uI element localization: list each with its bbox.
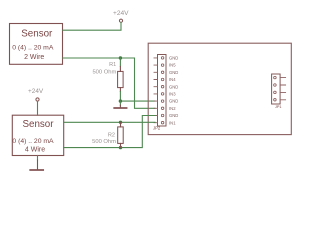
svg-text:0 (4) .. 20 mA: 0 (4) .. 20 mA [12, 45, 54, 52]
sensor U2 (4-wire) box [12, 115, 63, 155]
JP2 pin stubs [154, 58, 158, 123]
module box [148, 43, 291, 134]
junction at R2 bottom node [119, 146, 122, 149]
svg-text:GND: GND [169, 84, 178, 89]
svg-text:GND: GND [169, 70, 178, 75]
JP2 pin name labels [169, 56, 178, 126]
resistor R1 [119, 67, 121, 92]
svg-text:500 Ohm: 500 Ohm [92, 139, 116, 145]
svg-text:+24V: +24V [113, 10, 129, 17]
wire sensor2 output to IN1 [64, 121, 155, 123]
wire to ground 1 [119, 101, 121, 105]
JP2 pin circles [161, 57, 164, 124]
JP1 pin circles [274, 76, 277, 101]
ground symbol 1 [119, 105, 121, 107]
JP1 pin stubs [280, 78, 286, 100]
sensor U1 (2-wire) box [10, 24, 63, 65]
svg-text:500 Ohm: 500 Ohm [92, 70, 116, 76]
svg-text:4 Wire: 4 Wire [25, 146, 45, 153]
svg-text:IN5: IN5 [169, 63, 176, 68]
svg-text:IN4: IN4 [169, 77, 176, 82]
wire R1 top stub [119, 58, 121, 67]
svg-text:Sensor: Sensor [21, 29, 53, 40]
svg-text:JP2: JP2 [153, 125, 161, 130]
pin header JP1 box [272, 74, 281, 104]
wire sensor1 +24V feed [63, 23, 121, 31]
svg-text:GND: GND [169, 56, 178, 61]
svg-text:2 Wire: 2 Wire [24, 54, 44, 61]
svg-text:GND: GND [169, 113, 178, 118]
wire sensor2 +24V feed [37, 101, 39, 115]
supply +24V symbol (sensor 2) [36, 98, 39, 101]
junction at R1 bottom node [119, 99, 122, 102]
supply +24V symbol (top) [119, 19, 122, 22]
svg-text:IN3: IN3 [169, 92, 176, 97]
svg-text:R1: R1 [109, 62, 116, 68]
wire sensor2 return to GND pin [64, 116, 155, 148]
svg-text:+24V: +24V [28, 88, 44, 95]
pin header JP2 box [158, 55, 167, 127]
wire sensor2 to ground [37, 156, 39, 161]
svg-text:R2: R2 [108, 133, 115, 139]
svg-text:IN1: IN1 [169, 120, 176, 125]
svg-text:IN2: IN2 [169, 106, 176, 111]
svg-text:GND: GND [169, 99, 178, 104]
ground symbol 2 [37, 160, 39, 169]
wire sensor1 output to IN2 [63, 58, 155, 108]
svg-text:Sensor: Sensor [22, 119, 54, 130]
svg-text:JP1: JP1 [275, 105, 282, 109]
wire R1 bottom to GND pin [120, 92, 155, 102]
resistor R2 [120, 122, 122, 147]
junction at R1 top node [119, 56, 122, 59]
junction at R2 top node [119, 121, 122, 124]
svg-text:0 (4) .. 20 mA: 0 (4) .. 20 mA [12, 138, 54, 145]
